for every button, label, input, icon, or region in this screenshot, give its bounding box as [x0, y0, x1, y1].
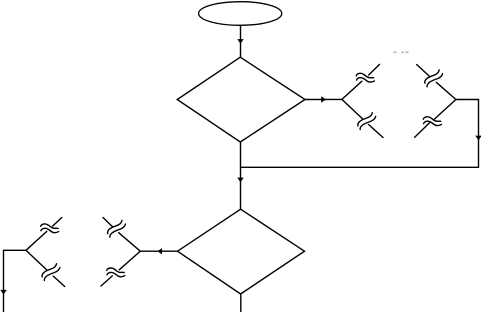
- terminator ellipse (start): [199, 2, 282, 26]
- wire: N2 upper branch (broken line): [417, 65, 456, 100]
- wire: N3 lower branch (broken line): [101, 251, 140, 286]
- wire: N4 lower branch (broken line): [26, 250, 65, 286]
- wire: N4 upper branch (broken line): [26, 218, 62, 251]
- break mark B1 (double tilde): [356, 73, 374, 82]
- arrowhead down on far-left vertical wire: [0, 290, 6, 295]
- wire: start terminator to decision D1: [240, 25, 242, 57]
- arrowhead into decision D2: [237, 178, 243, 183]
- wire: D1 bottom vertex to decision D2: [240, 142, 242, 209]
- wire: D2 bottom vertex to bottom edge: [240, 294, 242, 312]
- arrowhead into decision D1: [237, 39, 243, 44]
- wire: N4 to left bus and bottom edge: [4, 250, 27, 312]
- arrowhead toward branch node N3 (pointing left): [157, 248, 162, 254]
- decision diamond D2: [178, 209, 305, 294]
- break mark B8 (double hook): [42, 264, 60, 281]
- break mark B2 (double hook): [358, 113, 376, 130]
- wire: D1 right vertex to branch node N1: [305, 98, 342, 100]
- wire: N2 to right bus and bottom bus back to center: [241, 100, 479, 168]
- wire: N1 upper branch (broken line): [342, 64, 380, 99]
- arrowhead down on right vertical wire: [475, 136, 481, 141]
- break mark B4 (double tilde): [423, 117, 441, 126]
- wire: N2 lower branch (broken line): [415, 100, 456, 138]
- break mark B5 (double hook): [108, 220, 126, 237]
- break mark B6 (double tilde): [107, 268, 125, 277]
- wire: D2 left vertex to branch node N3: [140, 250, 177, 252]
- faint artifact marks (scan remnants): [393, 52, 408, 54]
- decision diamond D1: [177, 57, 305, 142]
- wire: N1 lower branch (broken line): [342, 99, 383, 137]
- break mark B7 (double tilde): [41, 224, 59, 233]
- wire: N3 upper branch (broken line): [103, 218, 140, 252]
- arrowhead toward branch node N1: [321, 96, 326, 102]
- break mark B3 (double hook): [425, 70, 443, 87]
